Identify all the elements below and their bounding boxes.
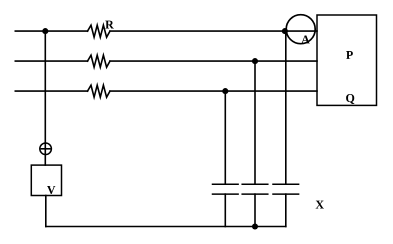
label Q (346, 94, 354, 104)
wire voltmeter bottom lead (45, 196, 47, 227)
resistor R3 (88, 85, 111, 97)
node junction dot L2 capacitor branch (252, 58, 258, 64)
wire phase L1 left segment (15, 30, 87, 32)
wire phase L2 left segment (15, 60, 87, 62)
wire phase L2 right segment (110, 60, 317, 62)
wire branch L2 to capacitor C2 (254, 61, 256, 184)
node junction dot bottom bus (252, 223, 258, 229)
wire bottom bus (46, 226, 286, 228)
capacitor C1 (213, 184, 239, 226)
label R (105, 21, 114, 29)
wire phase L3 right segment (110, 90, 317, 92)
node junction dot L3 capacitor branch (222, 88, 228, 94)
label A (301, 35, 309, 43)
wire branch L1 to capacitor C3 (285, 31, 287, 184)
node junction dot L1 voltmeter branch (42, 28, 48, 34)
ammeter A1 circle (286, 15, 315, 44)
resistor R1 (88, 25, 111, 37)
label X (316, 201, 324, 209)
voltmeter V1 box (31, 165, 61, 195)
wire branch L3 to capacitor C1 (224, 91, 226, 184)
wire voltmeter branch vertical (44, 31, 46, 165)
label P (346, 51, 353, 59)
wire phase L3 left segment (15, 90, 87, 92)
label V (47, 186, 55, 194)
capacitor C3 (273, 184, 299, 226)
resistor R2 (88, 55, 111, 67)
capacitor C2 (242, 184, 268, 226)
node junction dot L1 ammeter branch (282, 28, 288, 34)
fuse symbol circle-plus (40, 143, 52, 155)
meter box P Q (317, 15, 377, 105)
wire phase L1 right segment (110, 30, 317, 32)
